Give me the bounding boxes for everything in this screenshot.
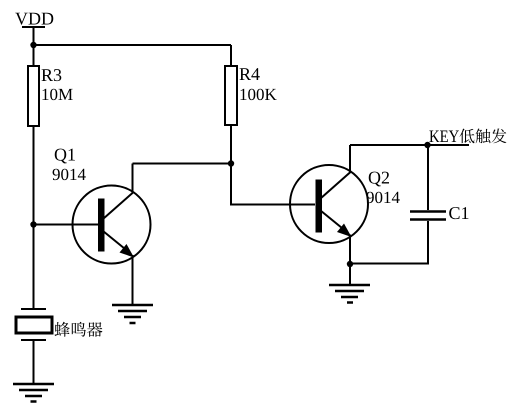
value 9014 of Q1 [53,169,86,180]
label Q1 [55,149,75,164]
wire base rail down to buzzer [33,225,35,310]
wire Q2 collector to net KEY [350,144,469,146]
wire Q1 collector to node B [133,163,232,165]
wire Q1 emitter lead [132,255,134,305]
label VDD [15,13,53,25]
net label KEY latin part [429,131,458,142]
wire R4 bottom to node B [230,125,232,164]
junction node Q1 base rail [30,221,36,227]
transistor Q1 [73,186,151,264]
wire Q2 emitter lead [349,235,351,265]
value 9014 of Q2 [367,192,400,203]
wire VDD to R4 [230,45,232,66]
label R3 [42,69,62,81]
buzzer LS1 [16,309,52,340]
label C1 [449,207,468,219]
wire C1 bottom to emitter node [350,221,428,264]
label R4 [240,68,260,80]
ground under buzzer [13,384,54,402]
wire node B to Q2 base [231,164,315,205]
junction node B R4-Q1-Q2 [228,160,234,166]
wire Q2 emitter node to ground [349,264,351,285]
resistor R4 [225,66,237,125]
junction node VDD rail [30,42,36,48]
wire Q1 collector lead [132,164,134,194]
net label KEY cjk part 低触发 [459,128,506,143]
wire VDD to R3 [33,45,35,66]
capacitor C1 [410,212,446,220]
label 蜂鸣器 [55,322,103,337]
wire Q1 base [34,224,99,226]
junction node Q2 emitter-C1 [347,261,353,267]
resistor R3 [28,66,39,126]
value 100K [240,89,276,100]
wire VDD rail horizontal [34,44,232,46]
wire buzzer to ground [33,340,35,384]
ground under Q2 emitter [329,285,370,303]
label Q2 [369,172,389,187]
value 10M [42,89,72,100]
wire R3 bottom to Q1 base node [33,126,35,225]
power symbol VDD [22,27,45,45]
transistor Q2 [290,165,368,243]
wire Q2 collector lead [349,145,351,173]
junction node KEY-C1 [424,142,430,148]
wire KEY node to C1 top [427,145,429,210]
ground under Q1 emitter [112,305,153,323]
